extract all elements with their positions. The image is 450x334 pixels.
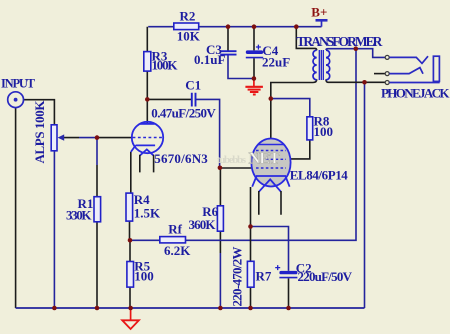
node: rail / R7 xyxy=(248,306,253,311)
wire: R8 bottom to EL84 g2 xyxy=(286,140,310,159)
resistor R1 xyxy=(66,196,101,222)
svg-text:220-470/2W: 220-470/2W xyxy=(229,247,244,307)
capacitor C4 (polarized) xyxy=(246,43,290,69)
resistor R7 xyxy=(229,247,272,307)
connector PHONEJACK xyxy=(381,55,450,100)
node: top rail / C4 xyxy=(252,24,257,29)
wire: R6 leads xyxy=(219,168,221,308)
wire: R4 column 5670 cathode xyxy=(130,152,131,240)
node: rail / pot xyxy=(52,306,57,311)
capacitor C3 xyxy=(194,42,237,67)
wire: feedback line from secondary top to Rf node xyxy=(130,49,356,241)
capacitor C1 xyxy=(151,78,216,121)
wire: ground rail xyxy=(16,307,365,309)
svg-text:PHONEJACK: PHONEJACK xyxy=(381,86,450,101)
node: rail / C2 xyxy=(286,306,291,311)
potentiometer ALPS 100K xyxy=(32,100,64,164)
node: plate/R8 xyxy=(269,96,274,101)
tube U2 EL84/6P14 (pentode, triode-strapped) xyxy=(251,139,348,215)
resistor Rf xyxy=(160,222,191,258)
wire: R1 column xyxy=(96,138,98,308)
node: rail / R1 xyxy=(95,306,100,311)
node: EL84 cathode / R7 / C2 xyxy=(248,224,253,229)
wire: C3 top lead xyxy=(227,27,229,52)
wire: plate node to R8 top xyxy=(271,99,310,117)
wire: input jack sleeve down to ground rail xyxy=(15,108,17,308)
svg-text:ALPS 100K: ALPS 100K xyxy=(32,100,47,164)
ground (main rail arrow, red) xyxy=(122,308,139,329)
node: wiper/R1 xyxy=(95,135,100,140)
wire: C4 leads xyxy=(253,27,255,80)
resistor R2 xyxy=(174,9,201,44)
resistor R5 xyxy=(127,259,154,288)
node: rail / R6 xyxy=(218,306,223,311)
svg-text:TRANSFORMER: TRANSFORMER xyxy=(296,34,382,49)
node: R4/R5/Rf xyxy=(128,238,133,243)
wire: C3 bottom lead to ground node xyxy=(228,55,254,79)
ground (C3/C4 earth, red) xyxy=(245,79,263,95)
svg-text:R7: R7 xyxy=(256,269,272,284)
wire: R3 column / C1 node / 5670 plate xyxy=(146,27,148,124)
svg-text:tubebbs: tubebbs xyxy=(217,154,247,166)
svg-text:0.1uF: 0.1uF xyxy=(194,52,225,67)
connector J1 INPUT xyxy=(1,77,36,108)
resistor R3 xyxy=(144,49,179,73)
capacitor C2 (polarized) xyxy=(275,261,352,284)
wire: cathode node to C2 top xyxy=(251,227,289,271)
power B+ xyxy=(311,5,327,27)
wire: secondary bottom junction down to rail xyxy=(364,82,366,308)
wire: grid node to EL84 g1 xyxy=(220,167,256,169)
node: rail / R5 ground xyxy=(128,306,133,311)
wire: R5 leads xyxy=(129,240,131,308)
svg-text:100K: 100K xyxy=(152,58,179,73)
wire: pot bottom to rail xyxy=(53,151,55,309)
node: top rail / C3 xyxy=(226,24,231,29)
node: C1/R6/g1 xyxy=(218,166,223,171)
wire: top rail from R3 to B+ xyxy=(148,26,321,28)
wire: secondary top to phonejack tip xyxy=(326,49,385,58)
wire: pot wiper to 5670 grid xyxy=(62,137,132,139)
svg-text:EL84/6P14: EL84/6P14 xyxy=(290,168,349,183)
svg-text:Rf: Rf xyxy=(168,222,182,237)
svg-text:B+: B+ xyxy=(311,5,327,20)
node: top rail / primary xyxy=(294,24,299,29)
svg-text:100: 100 xyxy=(314,124,334,139)
wire: EL84 cathode down to R7/C2 node xyxy=(250,187,252,227)
svg-text:0.47uF/250V: 0.47uF/250V xyxy=(151,105,216,120)
node: C3/C4 ground xyxy=(252,76,257,81)
wire: primary bottom to EL84 plate xyxy=(271,79,317,144)
svg-text:360K: 360K xyxy=(189,217,217,232)
resistor R8 xyxy=(307,114,333,140)
tube U1 5670/6N3 (triode) xyxy=(131,122,209,173)
svg-text:330K: 330K xyxy=(66,207,92,222)
wire: C1 left lead xyxy=(147,98,191,100)
svg-text:INPUT: INPUT xyxy=(1,77,36,91)
svg-text:10K: 10K xyxy=(177,29,201,44)
svg-text:NET: NET xyxy=(249,149,282,168)
wire: C1 right lead to EL84 grid node xyxy=(196,99,220,167)
resistor R6 xyxy=(189,204,224,232)
svg-text:220uF/50V: 220uF/50V xyxy=(298,269,353,284)
svg-text:100: 100 xyxy=(134,269,154,284)
node: secondary bottom / rail drop xyxy=(362,80,367,85)
wire: R7 leads xyxy=(250,227,252,309)
wire: phonejack ring stub xyxy=(374,73,385,75)
svg-text:22uF: 22uF xyxy=(262,55,290,70)
svg-text:5670/6N3: 5670/6N3 xyxy=(154,151,208,166)
transformer T1 xyxy=(296,34,382,80)
wire: B+ drop to transformer primary top xyxy=(296,27,316,51)
resistor R4 xyxy=(126,192,161,221)
wire: input jack to pot top xyxy=(24,100,55,124)
wire: secondary bottom to phonejack sleeve xyxy=(326,79,385,82)
svg-text:6.2K: 6.2K xyxy=(164,243,191,258)
watermark xyxy=(217,149,282,168)
node: secondary top / feedback xyxy=(354,46,359,51)
node: R3/C1/plate xyxy=(145,97,150,102)
wire: C2 bottom lead xyxy=(288,278,290,308)
svg-text:1.5K: 1.5K xyxy=(134,205,161,220)
svg-text:R2: R2 xyxy=(180,9,196,24)
svg-text:C1: C1 xyxy=(185,78,201,93)
